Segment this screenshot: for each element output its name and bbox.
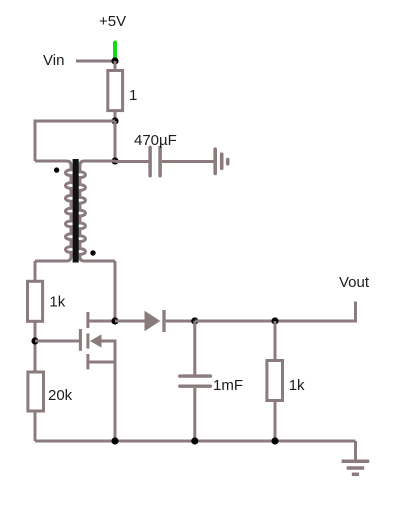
diode D1 cathode bar bbox=[162, 310, 165, 332]
svg-text:20k: 20k bbox=[48, 387, 73, 404]
svg-text:Vout: Vout bbox=[339, 274, 370, 291]
wire node C to capacitor C1 bbox=[115, 160, 149, 163]
wire R1 to node B bbox=[114, 111, 117, 121]
transformer T1 secondary winding (right) bbox=[80, 161, 115, 261]
Q1 body arrow bbox=[90, 334, 102, 347]
node H junction bbox=[111, 437, 118, 444]
node C junction bbox=[111, 157, 118, 164]
svg-text:Vin: Vin bbox=[43, 52, 64, 69]
node D junction bbox=[31, 337, 38, 344]
chassis ground (right of C1) bbox=[213, 149, 217, 173]
wire transformer secondary bottom to node E bbox=[114, 261, 117, 321]
resistor R3 20k bbox=[28, 372, 44, 411]
wire Vin to node A bbox=[76, 60, 115, 63]
svg-text:1: 1 bbox=[129, 87, 137, 104]
node A junction bbox=[111, 57, 118, 64]
capacitor C2 1mF plates bbox=[180, 374, 211, 377]
wire C1 to chassis ground bbox=[162, 160, 214, 163]
svg-text:1k: 1k bbox=[49, 294, 65, 311]
node J junction bbox=[271, 437, 278, 444]
svg-text:+5V: +5V bbox=[99, 13, 126, 30]
Q1 drain lead bbox=[88, 320, 115, 323]
wire R3 to ground rail bbox=[34, 411, 37, 441]
transformer phase dot secondary bbox=[90, 250, 95, 255]
wire R2 to node D bbox=[34, 321, 37, 371]
ground symbol bars bbox=[342, 459, 370, 463]
wire node G to R4 bbox=[274, 321, 277, 360]
Q1 source lead bbox=[88, 361, 115, 364]
wire R4 to ground rail bbox=[274, 401, 277, 442]
Q1 body to source connection bbox=[101, 341, 115, 362]
svg-text:1k: 1k bbox=[289, 377, 305, 394]
wire D1 to node F bbox=[166, 320, 195, 323]
+5V supply wire (green) bbox=[113, 43, 117, 59]
transformer T1 primary winding (left) bbox=[35, 161, 71, 261]
transformer T1 core bbox=[73, 159, 79, 263]
Q1 channel segment middle bbox=[86, 334, 89, 349]
ground rail wire bbox=[35, 440, 356, 443]
Q1 channel segment bottom bbox=[86, 354, 89, 369]
wire node E to diode D1 bbox=[115, 320, 145, 323]
wire Q1 source to ground rail bbox=[114, 362, 117, 441]
capacitor C1 470uF plates bbox=[148, 147, 152, 175]
wire node B left and down to transformer primary bbox=[35, 121, 115, 161]
transformer phase dot primary bbox=[54, 167, 59, 172]
svg-text:1mF: 1mF bbox=[213, 377, 243, 394]
resistor R4 1k bbox=[267, 361, 283, 401]
transistor Q1 nmos gate bar bbox=[79, 329, 82, 351]
Q1 channel segment top bbox=[86, 312, 89, 328]
wire node F to node G to Vout bbox=[195, 302, 356, 322]
wire node A to R1 bbox=[114, 61, 117, 70]
wire C2 to ground rail bbox=[193, 388, 196, 441]
node B junction bbox=[111, 117, 118, 124]
node F junction bbox=[191, 317, 198, 324]
svg-text:470µF: 470µF bbox=[134, 132, 177, 149]
ground symbol stub bbox=[354, 441, 357, 461]
diode D1 bbox=[145, 311, 161, 331]
resistor R1 bbox=[108, 71, 123, 111]
node I junction bbox=[191, 437, 198, 444]
wire node D to gate of Q1 bbox=[35, 340, 79, 343]
resistor R2 1k bbox=[28, 281, 43, 321]
wire node B down to node C bbox=[114, 121, 117, 161]
node E junction bbox=[111, 317, 118, 324]
wire node F to capacitor C2 bbox=[193, 321, 196, 375]
wire transformer primary bottom to R2 bbox=[34, 261, 37, 281]
node G junction bbox=[271, 317, 278, 324]
